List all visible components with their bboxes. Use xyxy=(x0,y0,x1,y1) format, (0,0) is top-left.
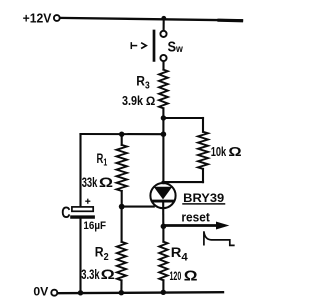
svg-text:120: 120 xyxy=(170,269,182,283)
svg-text:Ω: Ω xyxy=(99,176,113,191)
svg-text:+12V: +12V xyxy=(23,12,52,26)
svg-text:Ω: Ω xyxy=(101,268,115,283)
svg-text:Ω: Ω xyxy=(184,268,198,285)
svg-text:Ω: Ω xyxy=(228,145,241,160)
svg-text:reset: reset xyxy=(181,210,210,225)
svg-text:3.3k: 3.3k xyxy=(81,266,99,282)
svg-text:33k: 33k xyxy=(82,175,98,190)
svg-text:BRY39: BRY39 xyxy=(183,191,224,205)
svg-text:0V: 0V xyxy=(33,285,49,299)
svg-text:C: C xyxy=(61,203,70,222)
svg-text:10k: 10k xyxy=(211,144,227,159)
svg-text:3.9k: 3.9k xyxy=(122,93,144,108)
svg-text:16µF: 16µF xyxy=(83,220,106,232)
svg-text:Ω: Ω xyxy=(146,94,156,108)
